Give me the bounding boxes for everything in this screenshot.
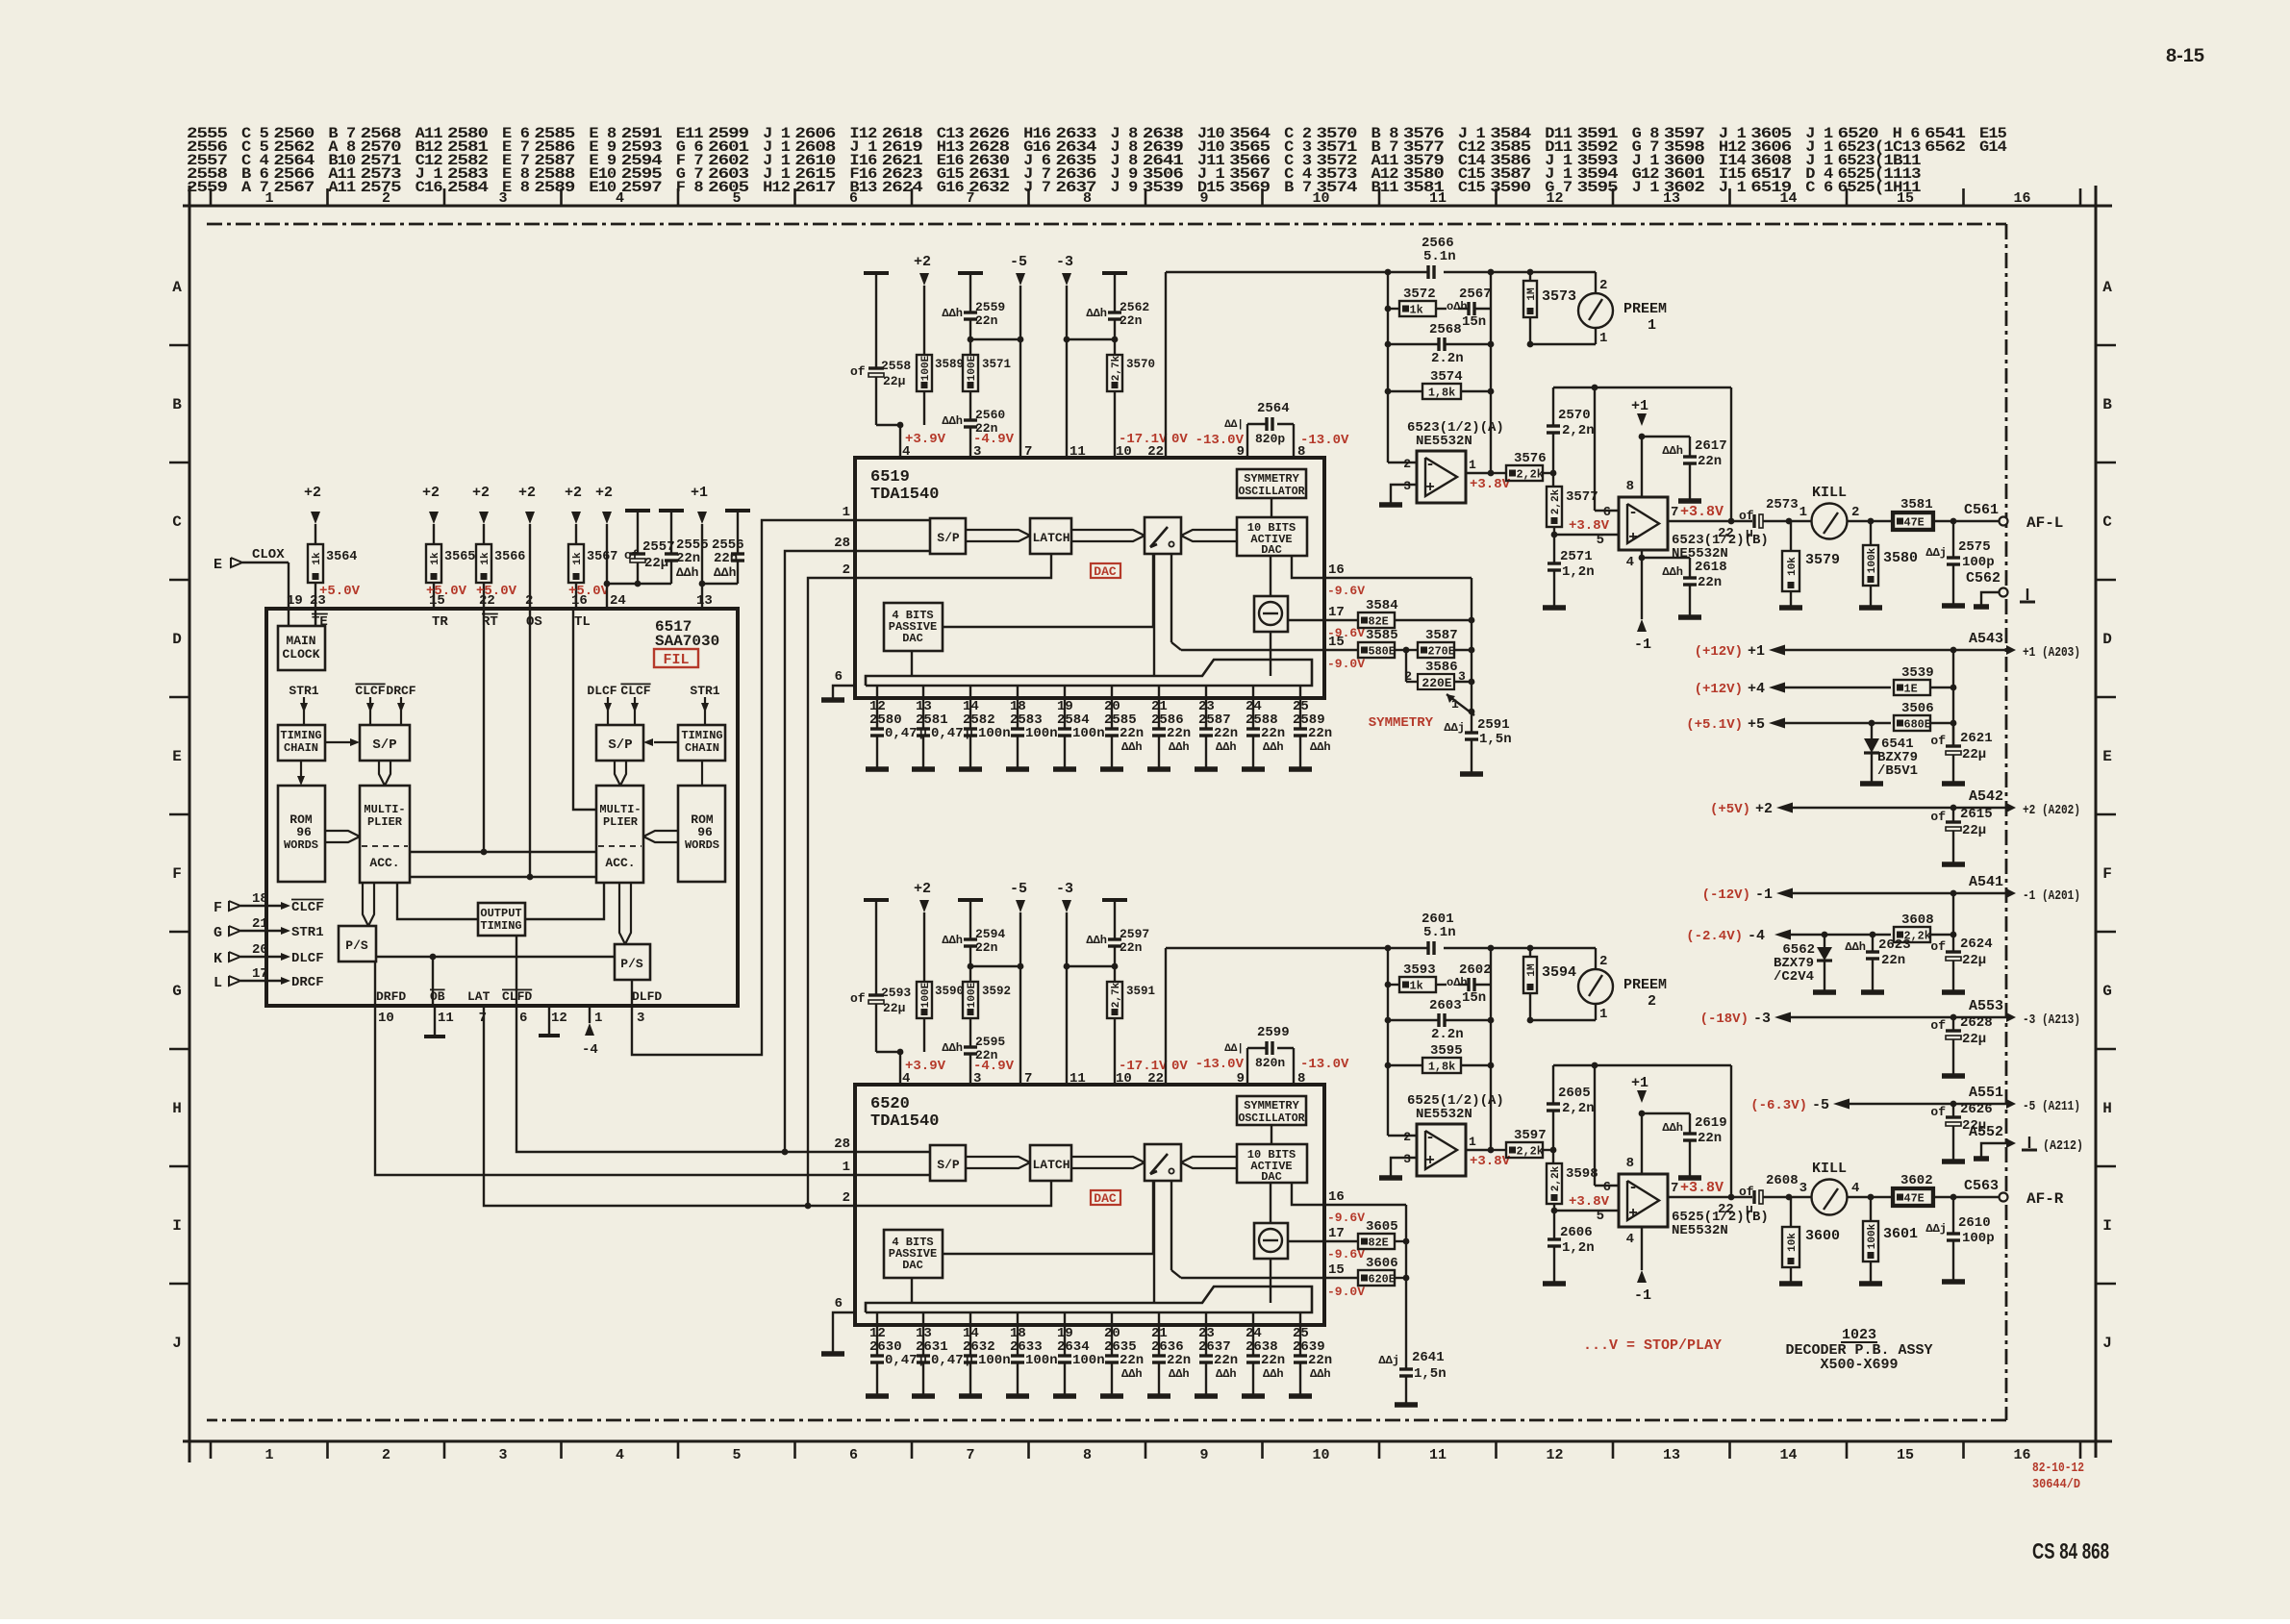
- svg-text:4: 4: [1851, 1181, 1859, 1196]
- svg-text:1: 1: [1469, 458, 1476, 472]
- svg-text:B11: B11: [1371, 179, 1399, 196]
- svg-text:+3.8V: +3.8V: [1470, 1154, 1511, 1169]
- 6519 wire current source down to bus: [1270, 632, 1271, 676]
- svg-text:82E: 82E: [1369, 1237, 1389, 1250]
- capacitor 2594 22n: [958, 898, 983, 902]
- svg-text:2567: 2567: [1459, 287, 1492, 302]
- svg-text:8: 8: [1083, 190, 1092, 207]
- capacitor 2617 22n: [1642, 436, 1690, 437]
- svg-text:6: 6: [835, 1296, 843, 1312]
- IC 6520 TDA1540 block outline: [855, 1085, 1324, 1325]
- svg-text:+1: +1: [1748, 643, 1765, 660]
- svg-text:-4.9V: -4.9V: [973, 432, 1015, 447]
- wire OS pin2 down to bus: [529, 609, 531, 877]
- op-amp U6523(1/2)(B): [1619, 497, 1668, 550]
- hollow arrow ACC to P/S right: [619, 883, 625, 944]
- svg-text:of: of: [1930, 1105, 1946, 1119]
- svg-text:-4: -4: [582, 1042, 598, 1058]
- capacitor 2562 22n: [1102, 271, 1127, 275]
- svg-text:C: C: [2102, 513, 2112, 531]
- svg-text:/B5V1: /B5V1: [1877, 763, 1918, 779]
- svg-text:9: 9: [1237, 1071, 1245, 1087]
- wire pin19 into MAIN CLOCK: [288, 609, 289, 626]
- svg-text:-13.0V: -13.0V: [1195, 433, 1245, 448]
- svg-text:C561: C561: [1964, 502, 1999, 518]
- svg-text:3572: 3572: [1403, 287, 1436, 302]
- svg-text:2559: 2559: [187, 179, 228, 196]
- svg-text:22µ: 22µ: [1962, 747, 1986, 762]
- svg-text:CHAIN: CHAIN: [284, 741, 318, 755]
- svg-text:1: 1: [1469, 1135, 1476, 1149]
- svg-text:9: 9: [1199, 1447, 1208, 1463]
- wire DRFD pin10 to 6520 pin1: [375, 1005, 854, 1175]
- svg-text:22µ: 22µ: [883, 1001, 905, 1015]
- svg-text:2626: 2626: [1960, 1102, 1993, 1117]
- svg-text:13: 13: [696, 593, 713, 609]
- svg-text:of: of: [1930, 939, 1946, 954]
- svg-text:1k: 1k: [312, 552, 323, 565]
- arrow TIMING CHAIN to S/P: [325, 741, 354, 743]
- capacitor 2589 22n on 6519 pin 25: [1299, 686, 1301, 729]
- hollow arrow S/P to MULTIPLIER right: [615, 761, 620, 786]
- svg-text:1,8k: 1,8k: [1428, 387, 1455, 400]
- svg-text:ΔΔh: ΔΔh: [1086, 307, 1107, 320]
- symmetry trimmer wiper arrow: [1469, 709, 1475, 715]
- svg-text:220E: 220E: [1422, 676, 1451, 690]
- svg-text:0V: 0V: [1171, 1059, 1188, 1074]
- svg-text:G14: G14: [1979, 138, 2007, 156]
- svg-text:ΔΔh: ΔΔh: [676, 565, 699, 580]
- MAIN CLOCK box: [278, 626, 325, 670]
- capacitor 2585 22n on 6519 pin 20: [1111, 686, 1113, 729]
- 6519 red DAC box: [1091, 563, 1120, 578]
- border frame left vertical: [189, 186, 191, 1462]
- svg-text:G: G: [214, 925, 222, 941]
- capacitor 2631 0,47 on 6520 pin 13: [922, 1312, 924, 1356]
- svg-text:A553: A553: [1969, 998, 2003, 1014]
- capacitor 2639 22n on 6520 pin 25: [1299, 1312, 1301, 1356]
- svg-text:10: 10: [378, 1011, 394, 1026]
- wire DLFD pin3 to 6519 pin1: [632, 520, 854, 1055]
- wire pin23 into MAIN CLOCK: [315, 609, 316, 626]
- svg-text:CS 84 868: CS 84 868: [2032, 1538, 2109, 1563]
- svg-text:P/S: P/S: [620, 957, 643, 971]
- svg-text:3567: 3567: [587, 550, 617, 564]
- svg-text:22µ: 22µ: [1962, 823, 1986, 838]
- capacitor 2597 22n: [1102, 898, 1127, 902]
- hollow arrow S/P to MULTIPLIER: [379, 761, 385, 786]
- svg-text:C 6: C 6: [1805, 179, 1833, 196]
- 6519 S/P box: [930, 518, 966, 554]
- capacitor 2628 22u: [1952, 1017, 1954, 1031]
- svg-text:2617: 2617: [794, 179, 836, 196]
- svg-text:-4: -4: [1748, 928, 1765, 944]
- svg-text:-1: -1: [1634, 637, 1651, 653]
- svg-text:2619: 2619: [1695, 1115, 1727, 1131]
- svg-text:+3.8V: +3.8V: [1569, 518, 1610, 534]
- svg-text:of: of: [624, 548, 640, 562]
- svg-text:ΔΔj: ΔΔj: [1378, 1354, 1399, 1367]
- svg-text:100n: 100n: [978, 1353, 1011, 1368]
- svg-text:+: +: [1425, 479, 1435, 496]
- feedback top wire: [1553, 387, 1731, 388]
- wire pin 13 junction: [702, 583, 738, 585]
- svg-text:I: I: [2102, 1217, 2112, 1235]
- svg-text:CHAIN: CHAIN: [685, 741, 719, 755]
- svg-text:-4.9V: -4.9V: [973, 1059, 1015, 1074]
- capacitor 2619 22n: [1642, 1112, 1690, 1114]
- svg-text:17: 17: [1328, 1226, 1345, 1241]
- feedback vertical to output node: [1730, 387, 1732, 521]
- svg-text:22n: 22n: [1167, 726, 1191, 741]
- svg-text:DAC: DAC: [1261, 543, 1282, 557]
- svg-text:11: 11: [1070, 444, 1086, 460]
- capacitor 2588 22n on 6519 pin 24: [1252, 686, 1254, 729]
- svg-text:7: 7: [1671, 1181, 1678, 1196]
- svg-text:AF-L: AF-L: [2026, 514, 2063, 532]
- svg-text:-1: -1: [1634, 1287, 1651, 1304]
- svg-text:of: of: [850, 991, 866, 1006]
- svg-text:LATCH: LATCH: [1032, 1158, 1070, 1172]
- rail vertical -1/-4: [1952, 893, 1954, 952]
- svg-text:+3.9V: +3.9V: [905, 432, 946, 447]
- wire ACC to OUTPUT TIMING left: [397, 883, 478, 919]
- 6520 pin 15 wire: [1181, 1277, 1324, 1279]
- 6519 switch symbol: [1150, 527, 1168, 547]
- svg-text:C15: C15: [1458, 179, 1486, 196]
- svg-text:PREEM: PREEM: [1623, 977, 1667, 993]
- svg-text:2608: 2608: [1766, 1173, 1799, 1188]
- svg-text:8: 8: [1626, 479, 1634, 494]
- svg-text:LATCH: LATCH: [1032, 531, 1070, 545]
- pin16 wire to bus (bottom): [1323, 1204, 1406, 1206]
- svg-text:1k: 1k: [1410, 304, 1423, 317]
- svg-text:E: E: [2102, 748, 2112, 765]
- capacitor 2630 0,47 on 6520 pin 12: [876, 1312, 878, 1356]
- svg-text:DRCF: DRCF: [291, 975, 324, 990]
- PREEM 2 switch circle: [1595, 948, 1597, 969]
- svg-text:of: of: [1930, 1018, 1946, 1033]
- svg-text:J 1: J 1: [1719, 179, 1747, 196]
- svg-text:1M: 1M: [1526, 963, 1538, 977]
- svg-text:ΔΔh: ΔΔh: [1169, 1367, 1190, 1381]
- svg-text:2.2n: 2.2n: [1431, 1027, 1464, 1042]
- capacitor 2634 100n on 6520 pin 19: [1064, 1312, 1066, 1356]
- TIMING CHAIN box left: [278, 725, 325, 761]
- 6520 SYMMETRY OSCILLATOR box: [1237, 1096, 1306, 1125]
- svg-text:22n: 22n: [1881, 953, 1905, 968]
- svg-text:22n: 22n: [1698, 1131, 1722, 1146]
- svg-text:+5: +5: [1748, 716, 1765, 733]
- svg-text:12: 12: [1546, 190, 1563, 207]
- svg-text:3602: 3602: [1900, 1173, 1933, 1188]
- svg-text:4: 4: [616, 1447, 624, 1463]
- capacitor 2558 22u supply: [864, 271, 889, 275]
- svg-text:82E: 82E: [1369, 615, 1389, 629]
- capacitor 2560 22n lower: [969, 391, 971, 420]
- svg-text:+2: +2: [518, 485, 536, 501]
- wire P/S right to pin 3: [631, 980, 633, 1005]
- capacitor 2618 22n: [1642, 557, 1690, 559]
- svg-text:NE5532N: NE5532N: [1416, 1107, 1472, 1122]
- cross bus wires between ACC halves: [410, 851, 596, 853]
- resistor 3590 100E: [917, 982, 932, 1018]
- wire pin 24 junction caps: [607, 583, 671, 585]
- capacitor 2615 22u: [1952, 808, 1954, 822]
- svg-text:TDA1540: TDA1540: [870, 1112, 939, 1131]
- svg-text:2: 2: [1404, 669, 1412, 684]
- capacitor 2557 22u: [637, 511, 639, 554]
- svg-text:3566: 3566: [494, 550, 525, 564]
- svg-text:10k: 10k: [1787, 557, 1799, 576]
- wire RT pin22 down to bus: [483, 609, 485, 852]
- svg-text:2,2n: 2,2n: [1562, 423, 1595, 438]
- svg-text:STR1: STR1: [291, 925, 324, 940]
- svg-text:5: 5: [732, 190, 741, 207]
- svg-text:10: 10: [1312, 190, 1329, 207]
- op-amp U6525(1/2)(B): [1619, 1174, 1668, 1227]
- op-amp A inverting input wire: [1387, 391, 1389, 462]
- vertical mid node: [1490, 272, 1492, 309]
- svg-text:DRFD: DRFD: [376, 989, 406, 1004]
- svg-text:3573: 3573: [1542, 288, 1576, 305]
- 6519 current source symbol: [1254, 596, 1288, 632]
- svg-text:21: 21: [252, 916, 268, 932]
- svg-text:2: 2: [382, 190, 390, 207]
- svg-text:2,7k: 2,7k: [1111, 982, 1122, 1008]
- op-amp B pin 8 supply riser: [1641, 437, 1643, 497]
- arrow TIMING CHAIN down to ROM: [300, 761, 302, 780]
- svg-text:100E: 100E: [920, 355, 932, 381]
- svg-text:820p: 820p: [1255, 432, 1285, 446]
- svg-text:8: 8: [1297, 1071, 1305, 1087]
- svg-text:CLOX: CLOX: [252, 547, 285, 562]
- svg-text:22n: 22n: [1120, 313, 1143, 328]
- svg-text:MAIN: MAIN: [286, 634, 315, 648]
- svg-text:17: 17: [252, 966, 268, 982]
- capacitor 2606 1.2n: [1553, 1211, 1555, 1239]
- capacitor 2559 22n: [958, 271, 983, 275]
- svg-text:22n: 22n: [1698, 575, 1722, 590]
- pin 12 stub with terminator: [548, 1005, 550, 1034]
- svg-text:3: 3: [1799, 1181, 1807, 1196]
- svg-text:2575: 2575: [1958, 539, 1991, 555]
- svg-text:2564: 2564: [1257, 401, 1290, 416]
- svg-text:1,2n: 1,2n: [1562, 564, 1595, 580]
- svg-text:PLIER: PLIER: [367, 815, 403, 829]
- svg-text:+5.0V: +5.0V: [319, 584, 361, 599]
- capacitor 2583 100n on 6519 pin 18: [1017, 686, 1019, 729]
- 6520 switch symbol: [1150, 1154, 1168, 1174]
- svg-text:2624: 2624: [882, 179, 923, 196]
- svg-text:6: 6: [519, 1011, 527, 1026]
- svg-text:11: 11: [1070, 1071, 1086, 1087]
- S/P box right: [596, 725, 643, 761]
- svg-text:L: L: [214, 975, 222, 991]
- svg-text:E10: E10: [589, 179, 617, 196]
- svg-text:DAC: DAC: [1261, 1170, 1282, 1184]
- svg-text:0,47: 0,47: [931, 1353, 964, 1368]
- capacitor 2632 100n on 6520 pin 14: [969, 1312, 971, 1356]
- 6519 hollow arrow DAC to switch: [1181, 530, 1237, 536]
- svg-text:1E: 1E: [1904, 683, 1918, 696]
- svg-text:6: 6: [849, 1447, 858, 1463]
- P/S box right: [615, 944, 650, 980]
- svg-text:10k: 10k: [1787, 1233, 1799, 1252]
- svg-text:WORDS: WORDS: [685, 838, 719, 852]
- capacitor 2591 1.5n: [1471, 712, 1472, 733]
- TIMING CHAIN box right: [678, 725, 725, 761]
- svg-text:H: H: [2102, 1100, 2112, 1117]
- svg-text:CLFD: CLFD: [502, 989, 532, 1004]
- svg-text:-5: -5: [1010, 881, 1027, 897]
- svg-text:of: of: [1739, 509, 1754, 523]
- svg-text:6520: 6520: [870, 1095, 910, 1113]
- svg-text:30644/D: 30644/D: [2032, 1477, 2080, 1492]
- svg-text:SYMMETRY: SYMMETRY: [1244, 1099, 1299, 1112]
- svg-text:KILL: KILL: [1812, 485, 1847, 501]
- resistor 3570 2.7k: [1112, 337, 1119, 343]
- svg-text:ACC.: ACC.: [369, 856, 399, 870]
- svg-text:D: D: [2102, 631, 2112, 648]
- svg-text:22: 22: [1718, 526, 1734, 541]
- svg-text:KILL: KILL: [1812, 1161, 1847, 1177]
- svg-text:2621: 2621: [1960, 731, 1993, 746]
- svg-text:ΔΔh: ΔΔh: [1121, 1367, 1143, 1381]
- svg-text:+2: +2: [1755, 801, 1773, 817]
- op-amp A inverting input wire: [1387, 1065, 1389, 1136]
- svg-text:-9.0V: -9.0V: [1327, 657, 1365, 671]
- svg-text:2: 2: [1851, 505, 1859, 520]
- svg-text:3593: 3593: [1403, 962, 1436, 978]
- svg-text:1: 1: [1799, 505, 1807, 520]
- svg-text:820n: 820n: [1255, 1056, 1285, 1070]
- svg-text:2,2k: 2,2k: [1550, 488, 1562, 514]
- svg-text:+: +: [1628, 529, 1638, 546]
- +1 supply arrow: [1637, 1090, 1647, 1103]
- 6519 wire SYMOSC to DAC: [1271, 498, 1272, 517]
- svg-text:+2: +2: [565, 485, 582, 501]
- svg-text:-3: -3: [1753, 1011, 1771, 1027]
- 6519 10 BITS ACTIVE DAC box: [1237, 517, 1307, 556]
- svg-text:1k: 1k: [480, 552, 491, 565]
- svg-text:DLCF: DLCF: [587, 684, 617, 698]
- svg-text:1,2n: 1,2n: [1562, 1240, 1595, 1256]
- svg-text:8: 8: [1083, 1447, 1092, 1463]
- wire CLOX down to pin 19: [288, 562, 289, 609]
- svg-text:1: 1: [843, 1160, 850, 1175]
- svg-text:G: G: [2102, 983, 2112, 1000]
- hollow arrow ROM to MULTIPLIER: [325, 831, 360, 837]
- svg-text:3589: 3589: [935, 358, 964, 371]
- svg-text:-3: -3: [1056, 254, 1073, 270]
- S/P box left: [360, 725, 410, 761]
- 6519 pin 15 wire: [1181, 649, 1324, 651]
- svg-text:2594: 2594: [975, 927, 1005, 941]
- svg-text:2: 2: [1599, 954, 1607, 969]
- svg-text:-: -: [1628, 1179, 1638, 1196]
- svg-text:S/P: S/P: [608, 737, 632, 753]
- resistor 3591 2.7k: [1112, 963, 1119, 970]
- 6519 wire pin 2 to LATCH bottom: [855, 554, 1051, 578]
- svg-text:OUTPUT: OUTPUT: [480, 907, 521, 920]
- svg-text:C562: C562: [1966, 570, 2001, 587]
- svg-text:ΔΔh: ΔΔh: [1086, 934, 1107, 947]
- svg-text:17: 17: [1328, 605, 1345, 620]
- svg-text:2610: 2610: [1958, 1215, 1991, 1231]
- svg-text:F: F: [172, 865, 182, 883]
- svg-text:15: 15: [1328, 1262, 1345, 1278]
- svg-text:1k: 1k: [572, 552, 584, 565]
- svg-text:(-6.3V): (-6.3V): [1750, 1098, 1807, 1113]
- svg-text:7: 7: [1024, 444, 1032, 460]
- 6520 hollow arrow S/P to LATCH: [966, 1157, 1030, 1162]
- capacitor 2608 22u output: [1731, 1196, 1752, 1198]
- svg-text:3: 3: [498, 190, 507, 207]
- svg-text:(+12V): (+12V): [1695, 644, 1743, 660]
- svg-text:100p: 100p: [1962, 1231, 1995, 1246]
- svg-text:22µ: 22µ: [1962, 953, 1986, 968]
- svg-text:ΔΔh: ΔΔh: [942, 1041, 963, 1055]
- svg-text:0V: 0V: [1171, 432, 1188, 447]
- svg-text:+1: +1: [691, 485, 708, 501]
- svg-text:+5.0V: +5.0V: [476, 584, 517, 599]
- svg-text:3571: 3571: [982, 358, 1011, 371]
- svg-text:2605: 2605: [708, 179, 749, 196]
- svg-text:F 8: F 8: [676, 179, 704, 196]
- svg-text:ΔΔh: ΔΔh: [1310, 1367, 1331, 1381]
- zener diode 6562 BZX79/C2V4: [1824, 935, 1825, 947]
- svg-text:1k: 1k: [430, 552, 441, 565]
- svg-text:6: 6: [1603, 505, 1611, 520]
- svg-text:-: -: [1628, 504, 1638, 521]
- svg-text:10: 10: [1312, 1447, 1329, 1463]
- 6520 10 BITS ACTIVE DAC box: [1237, 1144, 1307, 1183]
- svg-text:+2: +2: [304, 485, 321, 501]
- svg-text:DAC: DAC: [1094, 564, 1117, 579]
- wire junction to pin 4: [899, 425, 901, 458]
- svg-text:3608: 3608: [1901, 912, 1934, 928]
- svg-text:(+12V): (+12V): [1695, 682, 1743, 697]
- svg-text:6: 6: [835, 669, 843, 685]
- svg-text:20: 20: [252, 942, 268, 958]
- svg-text:7: 7: [1671, 505, 1678, 520]
- svg-text:2571: 2571: [1560, 549, 1593, 564]
- svg-text:H12: H12: [763, 179, 791, 196]
- svg-text:2.2n: 2.2n: [1431, 351, 1464, 366]
- svg-text:ΔΔj: ΔΔj: [1444, 721, 1465, 735]
- svg-text:+1: +1: [1631, 398, 1648, 414]
- svg-text:CLCF: CLCF: [291, 900, 324, 915]
- svg-text:-17.1V: -17.1V: [1119, 432, 1168, 447]
- feedback top wire: [1553, 1064, 1731, 1066]
- svg-text:SYMMETRY: SYMMETRY: [1244, 472, 1299, 486]
- +1 supply arrow: [1637, 413, 1647, 426]
- svg-text:2562: 2562: [1120, 300, 1149, 314]
- pin5 wire with +3.8V: [1554, 1210, 1619, 1212]
- svg-text:F: F: [2102, 865, 2112, 883]
- svg-text:5: 5: [732, 1447, 741, 1463]
- svg-text:ΔΔh: ΔΔh: [1169, 740, 1190, 754]
- svg-text:(A212): (A212): [2043, 1138, 2083, 1154]
- 6519 SYMMETRY OSCILLATOR box: [1237, 469, 1306, 498]
- resistor 3573 1M: [1523, 281, 1537, 317]
- svg-text:2568: 2568: [1429, 322, 1462, 337]
- svg-text:+: +: [1425, 1152, 1435, 1169]
- resistor 3601 100k: [1848, 1196, 1871, 1198]
- svg-text:+3.8V: +3.8V: [1569, 1194, 1610, 1210]
- svg-text:1: 1: [264, 190, 273, 207]
